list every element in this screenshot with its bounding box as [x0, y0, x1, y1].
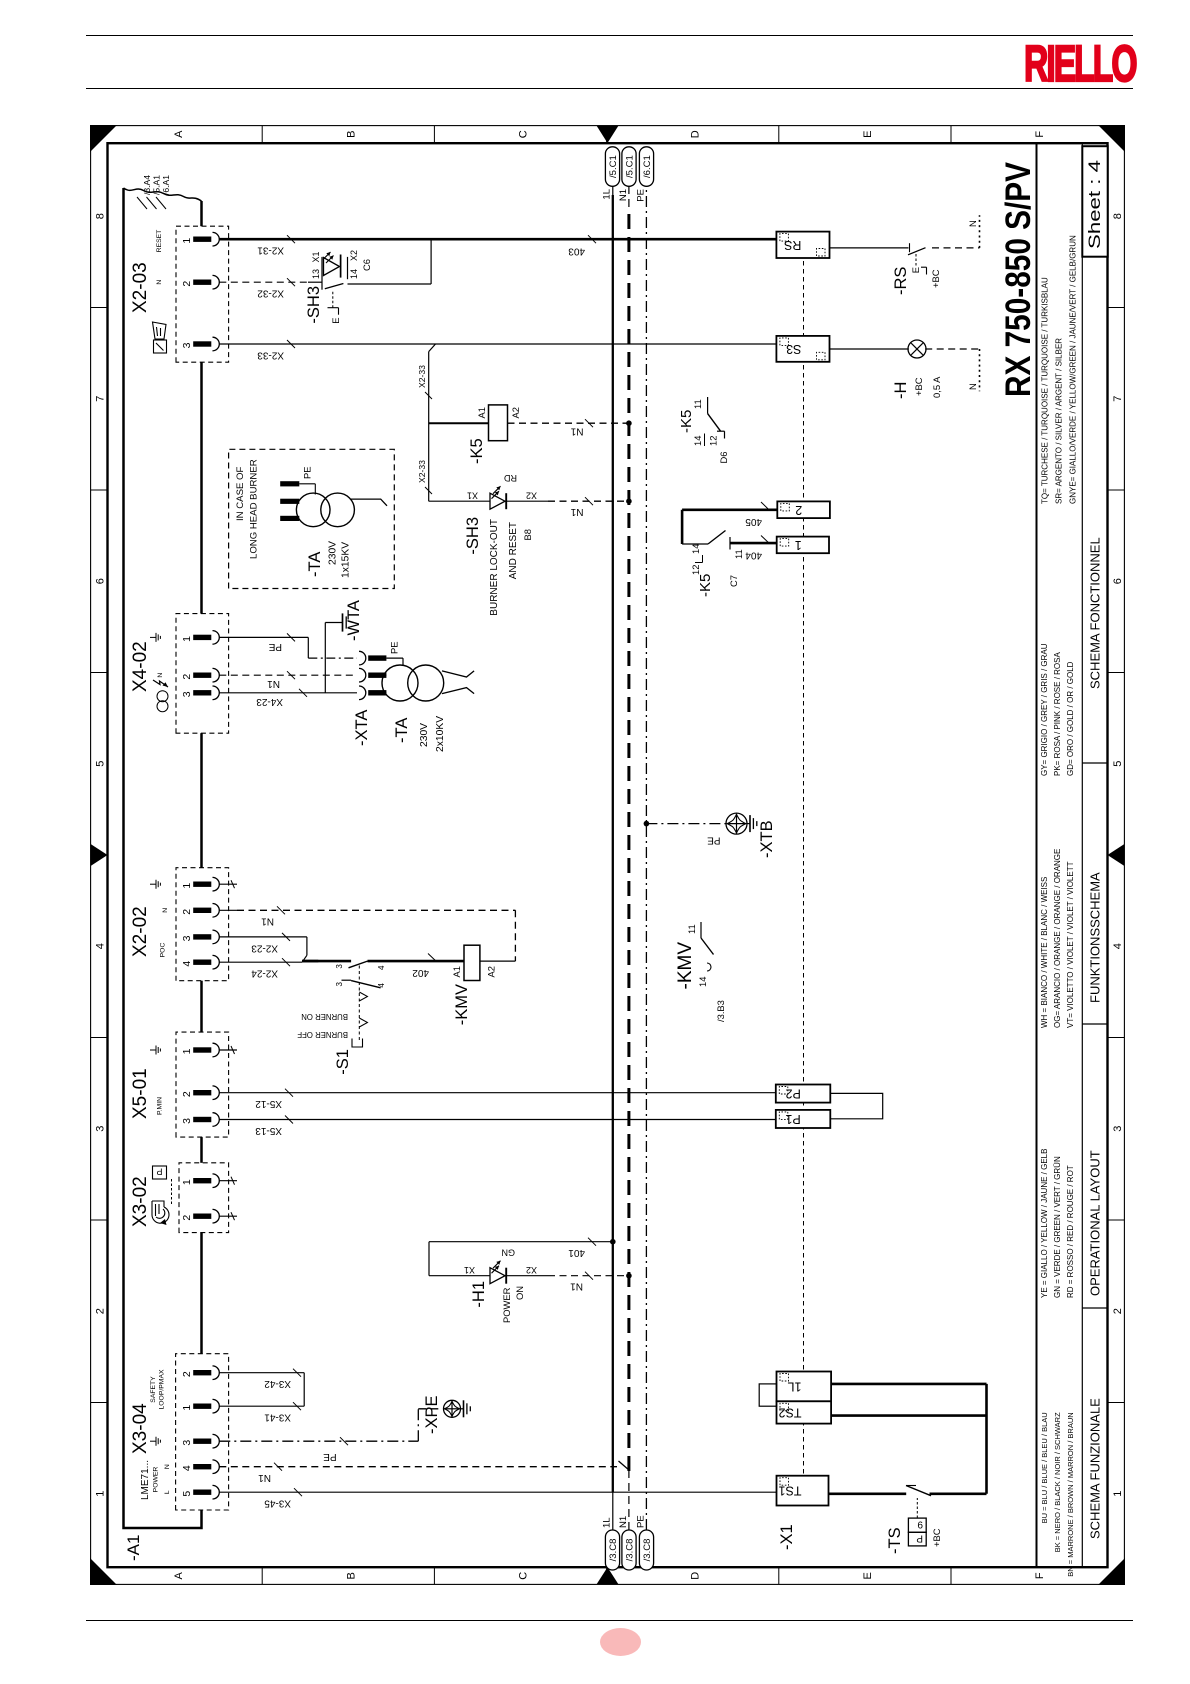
svg-text:-A1: -A1	[124, 1534, 143, 1560]
svg-text:PE: PE	[706, 834, 720, 845]
X5-01 pin 3	[193, 1117, 211, 1122]
svg-text:-SH3: -SH3	[464, 517, 482, 555]
svg-text:-H1: -H1	[470, 1281, 488, 1308]
X4-02 pin 2	[193, 672, 211, 677]
earth point -XPE	[443, 1400, 460, 1417]
svg-text:7: 7	[1112, 395, 1124, 401]
wire X2-24 (402) from X2-02 pin4 through S1 to KMV coil	[219, 961, 302, 963]
svg-text:C7: C7	[728, 575, 739, 587]
wire X4-23 from X4-02 pin3 to XTA	[219, 692, 357, 694]
svg-text:-H: -H	[892, 381, 910, 398]
svg-text:N: N	[157, 672, 164, 677]
bus line PE	[645, 186, 647, 1530]
RIELLO logo	[1024, 38, 1136, 89]
svg-text:VT= VIOLETTO / VIOLET / VIOLET: VT= VIOLETTO / VIOLET / VIOLET / VIOLETT	[1065, 861, 1074, 1028]
connector X2-03 dashed box	[176, 226, 229, 362]
svg-text:/6.C1: /6.C1	[641, 155, 652, 178]
svg-text:A1: A1	[451, 966, 462, 977]
connector X2-02 dashed box	[176, 867, 229, 980]
wire 401 from 1L bus to lamp H1	[610, 1239, 616, 1245]
svg-text:X5-12: X5-12	[254, 1098, 281, 1109]
svg-text:RD = ROSSO / RED / ROUGE / ROT: RD = ROSSO / RED / ROUGE / ROT	[1065, 1165, 1074, 1298]
svg-text:14: 14	[697, 976, 708, 986]
svg-text:-SH3: -SH3	[305, 286, 323, 324]
svg-text:-XTB: -XTB	[758, 820, 776, 858]
svg-text:X2-33: X2-33	[417, 460, 427, 483]
wire PE from X4-02 pin1 to XTA	[219, 636, 308, 638]
svg-text:-XPE: -XPE	[423, 1395, 441, 1434]
svg-text:+BC: +BC	[931, 1528, 942, 1547]
wire X2-31 (403) from X2-03 pin1 to RS	[219, 238, 776, 241]
svg-text:/3.C8: /3.C8	[641, 1538, 652, 1561]
thermostat -TS contact	[906, 1484, 916, 1486]
svg-text:-KMV: -KMV	[453, 984, 471, 1025]
svg-text:-X1: -X1	[778, 1524, 796, 1550]
svg-text:WH = BIANCO / WHITE / BLANC /: WH = BIANCO / WHITE / BLANC / WEISS	[1039, 876, 1048, 1027]
svg-text:IN CASE OF: IN CASE OF	[235, 466, 246, 521]
svg-text:-RS: -RS	[892, 266, 910, 294]
X2-03 lockout lamp icon	[152, 322, 166, 353]
svg-text:YE = GIALLO / YELLOW / JAUNE /: YE = GIALLO / YELLOW / JAUNE / GELB	[1039, 1148, 1048, 1297]
legend names row cell dividers	[1082, 1307, 1107, 1309]
svg-text:0,5 A: 0,5 A	[931, 376, 942, 398]
svg-text:2: 2	[181, 280, 193, 286]
svg-text:2: 2	[94, 1308, 106, 1314]
svg-text:SR= ARGENTO / SILVER / ARGENT: SR= ARGENTO / SILVER / ARGENT / SILBER	[1054, 338, 1063, 504]
junction K5 on N1	[626, 420, 632, 426]
wire 404 to terminal 1	[730, 542, 777, 545]
svg-text:P: P	[916, 1532, 923, 1543]
ignition transformer -TA 2x10KV	[383, 674, 386, 676]
svg-text:D6: D6	[718, 451, 729, 463]
svg-text:A: A	[173, 130, 185, 138]
svg-text:C6: C6	[361, 259, 372, 271]
flame probe -WTA	[324, 622, 326, 692]
svg-text:PE: PE	[322, 1451, 336, 1462]
svg-text:2: 2	[181, 1091, 193, 1097]
svg-text:3: 3	[181, 1439, 193, 1445]
svg-text:E: E	[861, 1572, 873, 1579]
relay K5 contact C7 wiring 405	[682, 508, 777, 511]
svg-text:N1: N1	[618, 1516, 629, 1528]
long head transformer HV lead	[350, 499, 387, 506]
svg-text:X2-33: X2-33	[256, 349, 283, 360]
svg-text:N1: N1	[569, 1280, 582, 1291]
svg-text:X3-42: X3-42	[263, 1378, 290, 1389]
X2-02 pin 2	[193, 907, 211, 912]
svg-text:L: L	[164, 1490, 171, 1494]
svg-text:F: F	[1034, 130, 1046, 137]
svg-text:2: 2	[181, 1371, 193, 1377]
svg-text:3: 3	[181, 935, 193, 941]
svg-text:5: 5	[94, 760, 106, 766]
svg-text:PE: PE	[388, 641, 399, 654]
svg-text:A1: A1	[476, 407, 487, 418]
svg-text:6: 6	[94, 578, 106, 584]
X2-02 pin 4	[193, 959, 211, 964]
svg-text:A2: A2	[485, 966, 496, 977]
lamp LED SH3 B8 burner lock-out	[428, 500, 489, 502]
svg-text:1: 1	[181, 1048, 193, 1054]
wire X2-23 from X2-02 pin3	[219, 936, 307, 938]
svg-text:X2-23: X2-23	[250, 942, 277, 953]
terminal P1	[775, 1110, 830, 1128]
svg-text:POWER: POWER	[152, 1466, 159, 1492]
svg-text:1L: 1L	[601, 1517, 612, 1528]
svg-text:11: 11	[692, 399, 703, 409]
push button SH3 contact 13-14	[321, 257, 323, 290]
svg-text:/3.C8: /3.C8	[624, 1538, 635, 1561]
svg-text:N1: N1	[260, 915, 273, 926]
svg-text:/5.C1: /5.C1	[607, 155, 618, 178]
svg-text:4: 4	[181, 960, 193, 966]
svg-text:N1: N1	[570, 506, 583, 517]
svg-text:8: 8	[1112, 213, 1124, 219]
svg-text:1: 1	[181, 1404, 193, 1410]
svg-text:X2: X2	[349, 250, 359, 261]
svg-text:X2: X2	[525, 490, 536, 500]
svg-text:/3.A4: /3.A4	[142, 175, 152, 195]
X5-01 pin 2	[193, 1090, 211, 1095]
X4-02 pin 1	[193, 634, 211, 639]
svg-text:3: 3	[181, 691, 193, 697]
svg-text:LOOP/PMAX: LOOP/PMAX	[158, 1369, 165, 1410]
svg-text:1: 1	[181, 882, 193, 888]
svg-text:4: 4	[94, 943, 106, 949]
TA high voltage electrodes	[442, 671, 474, 677]
sheet number box	[1082, 146, 1107, 257]
svg-text:N: N	[164, 1464, 171, 1469]
svg-text:X1: X1	[466, 490, 477, 500]
footer rule	[86, 1620, 1133, 1621]
svg-text:SAFETY: SAFETY	[150, 1376, 157, 1403]
svg-text:N: N	[967, 220, 978, 227]
svg-text:BURNER OFF: BURNER OFF	[297, 1030, 348, 1039]
A1 internal line continuation references /3.A4 /5.A1 /6.A1	[137, 197, 147, 209]
lamp LED C6 of SH3	[323, 257, 339, 275]
X3-02 pressure P icon	[152, 1166, 166, 1179]
svg-text:X2-32: X2-32	[256, 287, 283, 298]
svg-text:12: 12	[707, 435, 718, 445]
wire X2-32 from X2-03 pin2 to SH3 contact	[219, 281, 308, 283]
wire N1 from X3-04 pin4 to N1 bus	[219, 1465, 617, 1467]
svg-text:2: 2	[181, 673, 193, 679]
svg-text:BK = NERO / BLACK / NOIR / SCH: BK = NERO / BLACK / NOIR / SCHWARZ	[1052, 1412, 1061, 1552]
svg-text:TQ= TURCHESE / TURQUOISE / TUR: TQ= TURCHESE / TURQUOISE / TURQUOISE / T…	[1040, 277, 1049, 504]
lamp LED H1 power on	[429, 1274, 490, 1276]
svg-text:5: 5	[1112, 760, 1124, 766]
svg-text:1L: 1L	[601, 189, 612, 200]
svg-text:/3.C8: /3.C8	[607, 1538, 618, 1561]
header top rule	[86, 35, 1133, 36]
svg-text:N1: N1	[257, 1472, 270, 1483]
svg-text:P2: P2	[785, 1086, 800, 1100]
wire X5-12 to terminal P2	[219, 1091, 776, 1093]
svg-text:X1: X1	[463, 1265, 474, 1275]
svg-text:X4-23: X4-23	[255, 696, 282, 707]
svg-text:4: 4	[377, 982, 386, 987]
svg-text:7: 7	[94, 395, 106, 401]
svg-text:2: 2	[795, 503, 802, 517]
relay KMV contact 11-14 (ref /3.B3)	[700, 922, 702, 938]
svg-text:RESET: RESET	[156, 229, 163, 252]
svg-text:N1: N1	[570, 425, 583, 436]
svg-text:6: 6	[1112, 578, 1124, 584]
svg-text:B: B	[345, 1572, 357, 1579]
svg-text:GD= ORO / GOLD / OR / GOLD: GD= ORO / GOLD / OR / GOLD	[1065, 661, 1074, 776]
svg-text:230V: 230V	[419, 723, 430, 747]
terminal bridge 1L-TS2	[759, 1384, 776, 1406]
X2-03 pin 3	[193, 341, 211, 346]
svg-text:B: B	[345, 130, 357, 137]
terminal 1	[776, 536, 828, 553]
svg-text:N1: N1	[618, 189, 629, 201]
svg-text:2: 2	[181, 1214, 193, 1220]
legend names row divider	[1081, 143, 1083, 1567]
svg-text:-KMV: -KMV	[675, 941, 696, 989]
svg-text:D: D	[689, 130, 701, 138]
SH3 actuator E	[331, 290, 333, 308]
svg-text:14: 14	[690, 543, 701, 553]
svg-text:1: 1	[181, 1179, 193, 1185]
svg-text:PE: PE	[635, 189, 646, 202]
svg-text:11: 11	[733, 549, 744, 559]
drawing frame inner border	[107, 143, 1107, 1567]
svg-text:P: P	[156, 1166, 162, 1176]
X2-02 sublabels	[150, 883, 156, 885]
svg-text:3: 3	[94, 1125, 106, 1131]
header bottom rule	[86, 88, 1133, 89]
connector X3-04 dashed box	[175, 1353, 228, 1509]
svg-text:401: 401	[567, 1247, 584, 1258]
svg-text:F: F	[1034, 1572, 1046, 1579]
svg-text:4: 4	[377, 965, 386, 970]
svg-text:2: 2	[1112, 1308, 1124, 1314]
bus reference ovals right (/5.C1 /5.C1 /6.C1)	[605, 147, 619, 187]
switch S1 actuator	[358, 964, 360, 1040]
bus line 1L	[611, 1492, 613, 1530]
svg-text:+BC: +BC	[913, 377, 924, 396]
svg-text:1: 1	[94, 1490, 106, 1496]
wire PE from X3-04 pin3 to XPE	[219, 1440, 418, 1442]
relay K5 contact C7 blade	[682, 543, 708, 545]
svg-text:D: D	[689, 1572, 701, 1580]
svg-text:A2: A2	[510, 407, 521, 418]
svg-text:RX 750-850 S/PV: RX 750-850 S/PV	[999, 161, 1038, 397]
X3-04 pin 2	[193, 1370, 211, 1375]
svg-text:-TS: -TS	[886, 1527, 904, 1554]
svg-text:X2-24: X2-24	[250, 967, 277, 978]
svg-text:B8: B8	[522, 529, 533, 540]
svg-text:Sheet : 4: Sheet : 4	[1085, 160, 1104, 249]
X5-01 sublabels	[150, 1049, 156, 1051]
svg-text:ON: ON	[514, 1286, 525, 1300]
svg-text:/3.B3: /3.B3	[715, 1000, 726, 1022]
svg-text:TS2: TS2	[778, 1405, 801, 1419]
X3-02 pin 2	[193, 1213, 211, 1218]
svg-text:E: E	[861, 130, 873, 137]
bus line N1	[627, 1471, 629, 1530]
svg-text:OPERATIONAL LAYOUT: OPERATIONAL LAYOUT	[1087, 1150, 1102, 1296]
svg-text:GN: GN	[501, 1247, 515, 1257]
svg-text:PE: PE	[301, 466, 312, 479]
svg-text:LONG HEAD BURNER: LONG HEAD BURNER	[248, 459, 259, 559]
earth terminal -XTB	[643, 821, 649, 827]
connector X3-02 dashed box	[179, 1163, 229, 1233]
switch S1 burner on/off contact	[302, 960, 351, 963]
wire X2-33 branch rail to K5 coil and SH3 B8 lamp	[428, 344, 435, 352]
wire N1 from X2-02 pin2 to KMV coil	[219, 909, 237, 911]
terminal TS1	[776, 1475, 828, 1505]
X2-02 pin 1	[193, 881, 211, 886]
wire K5 A2 to N1 bus	[507, 422, 628, 424]
remote reset button -RS contact	[829, 247, 908, 249]
svg-text:11: 11	[686, 924, 697, 934]
X3-04 pin 5	[193, 1489, 211, 1494]
svg-text:/5.A1: /5.A1	[151, 175, 161, 195]
terminal TS2	[776, 1401, 831, 1423]
svg-text:8: 8	[94, 213, 106, 219]
thermostat TS loop wiring	[831, 1382, 986, 1385]
frame centering arrows	[90, 844, 107, 866]
switch S1 second pole	[341, 979, 351, 981]
svg-text:5: 5	[181, 1490, 193, 1496]
svg-text:N1: N1	[266, 678, 279, 689]
legend strip top border	[1035, 143, 1037, 1567]
svg-text:BU = BLU / BLUE / BLEU / BLAU: BU = BLU / BLUE / BLEU / BLAU	[1039, 1412, 1048, 1523]
svg-text:-K5: -K5	[468, 438, 486, 464]
long head transformer windings	[299, 483, 315, 485]
svg-text:GN = VERDE / GREEN / VERT / GR: GN = VERDE / GREEN / VERT / GRÜN	[1052, 1156, 1061, 1298]
svg-text:N: N	[967, 383, 978, 390]
burner terminal strip line	[802, 231, 804, 1505]
svg-text:X1: X1	[311, 251, 321, 262]
svg-text:RS: RS	[784, 238, 801, 252]
svg-text:X5-01: X5-01	[130, 1068, 151, 1119]
X2-02 pin 3	[193, 934, 211, 939]
svg-text:1: 1	[181, 636, 193, 642]
svg-text:E: E	[330, 317, 341, 323]
frame reference grid ticks and labels	[90, 1401, 107, 1403]
relay K5 contact 11-14-12 (column D6)	[706, 397, 708, 414]
svg-text:SCHEMA FONCTIONNEL: SCHEMA FONCTIONNEL	[1087, 537, 1102, 689]
svg-text:3: 3	[181, 342, 193, 348]
motor relay coil -KMV	[464, 945, 480, 980]
option box in case of long head burner	[228, 449, 394, 588]
svg-text:C: C	[517, 1572, 529, 1580]
svg-text:402: 402	[411, 967, 428, 978]
svg-text:OG= ARANCIO / ORANGE / ORANGE: OG= ARANCIO / ORANGE / ORANGE / ORANGE	[1052, 848, 1061, 1027]
X4-02 pin 3	[193, 690, 211, 695]
svg-text:3: 3	[335, 981, 344, 986]
svg-text:P1: P1	[785, 1112, 800, 1126]
svg-text:X2-02: X2-02	[130, 906, 151, 957]
safety loop wires X3-42 X3-41	[219, 1371, 304, 1373]
terminal 2	[777, 501, 830, 518]
svg-text:FUNKTIONSSCHEMA: FUNKTIONSSCHEMA	[1087, 872, 1102, 1003]
svg-text:13: 13	[311, 269, 321, 279]
connector X4-02 dashed box	[176, 613, 229, 733]
svg-text:X3-02: X3-02	[130, 1176, 151, 1227]
wire X5-13 to terminal P1	[219, 1118, 776, 1120]
terminal RS	[776, 231, 829, 257]
svg-text:-TA: -TA	[306, 551, 324, 576]
svg-text:BURNER ON: BURNER ON	[301, 1012, 348, 1021]
connector X5-01 dashed box	[176, 1032, 229, 1137]
wire X3-45 power L from X3-04 pin5	[219, 1491, 776, 1493]
frame corner marks	[90, 1558, 117, 1585]
svg-text:SCHEMA FUNZIONALE: SCHEMA FUNZIONALE	[1087, 1398, 1102, 1539]
svg-text:RD: RD	[503, 473, 516, 483]
svg-text:N: N	[162, 908, 169, 913]
X3-02 pin 1	[193, 1178, 211, 1183]
svg-text:230V: 230V	[327, 541, 338, 565]
svg-text:GY= GRIGIO / GREY / GRIS / GRA: GY= GRIGIO / GREY / GRIS / GRAU	[1039, 643, 1048, 776]
X2-03 pin 1	[193, 236, 211, 241]
svg-text:9: 9	[917, 1518, 923, 1529]
svg-text:403: 403	[567, 245, 584, 256]
wire link SH3 to wire 403	[347, 283, 431, 285]
control box A1 LME71 outline	[123, 188, 201, 1528]
svg-text:-K5: -K5	[678, 409, 695, 432]
svg-text:4: 4	[1112, 943, 1124, 949]
terminal P2	[775, 1084, 830, 1102]
svg-text:404: 404	[744, 549, 761, 560]
svg-text:E: E	[910, 267, 921, 273]
svg-text:-K5: -K5	[697, 573, 714, 596]
svg-text:X4-02: X4-02	[130, 641, 151, 692]
svg-text:X3-41: X3-41	[263, 1411, 290, 1422]
thermostat TS actuator boxes P 9	[908, 1532, 926, 1546]
svg-text:1x15KV: 1x15KV	[340, 542, 351, 578]
svg-text:POWER: POWER	[501, 1287, 512, 1323]
svg-text:X2-31: X2-31	[256, 244, 283, 255]
svg-text:2x10KV: 2x10KV	[435, 716, 446, 752]
svg-text:BN = MARRONE / BROWN / MARRON: BN = MARRONE / BROWN / MARRON / BRAUN	[1065, 1412, 1074, 1576]
wire X2-33 from X2-03 pin3 to S3	[219, 343, 776, 345]
svg-text:1L: 1L	[787, 1379, 801, 1393]
drawing frame outer border	[90, 125, 1124, 1584]
relay coil K5	[428, 422, 488, 424]
svg-text:-XTA: -XTA	[353, 709, 371, 745]
svg-text:S3: S3	[786, 342, 801, 356]
X4-02 transformer icon	[157, 700, 168, 711]
X5-01 pin 1	[193, 1047, 211, 1052]
svg-text:4: 4	[181, 1465, 193, 1471]
X4-02 sublabels	[150, 636, 156, 638]
svg-text:405: 405	[744, 516, 761, 527]
svg-text:PE: PE	[268, 641, 282, 652]
svg-text:3: 3	[1112, 1125, 1124, 1131]
X2-03 pin 2	[193, 279, 211, 284]
svg-text:C: C	[517, 130, 529, 138]
page marker dot	[600, 1628, 641, 1656]
bus reference ovals left (/3.C8)	[605, 1530, 619, 1570]
svg-text:X2: X2	[525, 1265, 536, 1275]
X3-02 manual reset icon	[152, 1201, 169, 1223]
svg-text:POC: POC	[159, 942, 166, 957]
svg-text:X2-03: X2-03	[130, 262, 151, 313]
terminal 1L	[776, 1371, 831, 1401]
svg-text:GNYE= GIALLO/VERDE / YELLOW/GR: GNYE= GIALLO/VERDE / YELLOW/GREEN / JAUN…	[1068, 235, 1077, 504]
svg-text:LME71...: LME71...	[140, 1460, 151, 1500]
svg-text:1: 1	[181, 237, 193, 243]
terminal S3	[776, 336, 829, 362]
svg-text:/6.A1: /6.A1	[161, 175, 171, 195]
svg-text:+BC: +BC	[930, 269, 941, 288]
svg-text:BURNER LOCK-OUT: BURNER LOCK-OUT	[489, 519, 500, 616]
svg-text:AND RESET: AND RESET	[508, 522, 519, 579]
